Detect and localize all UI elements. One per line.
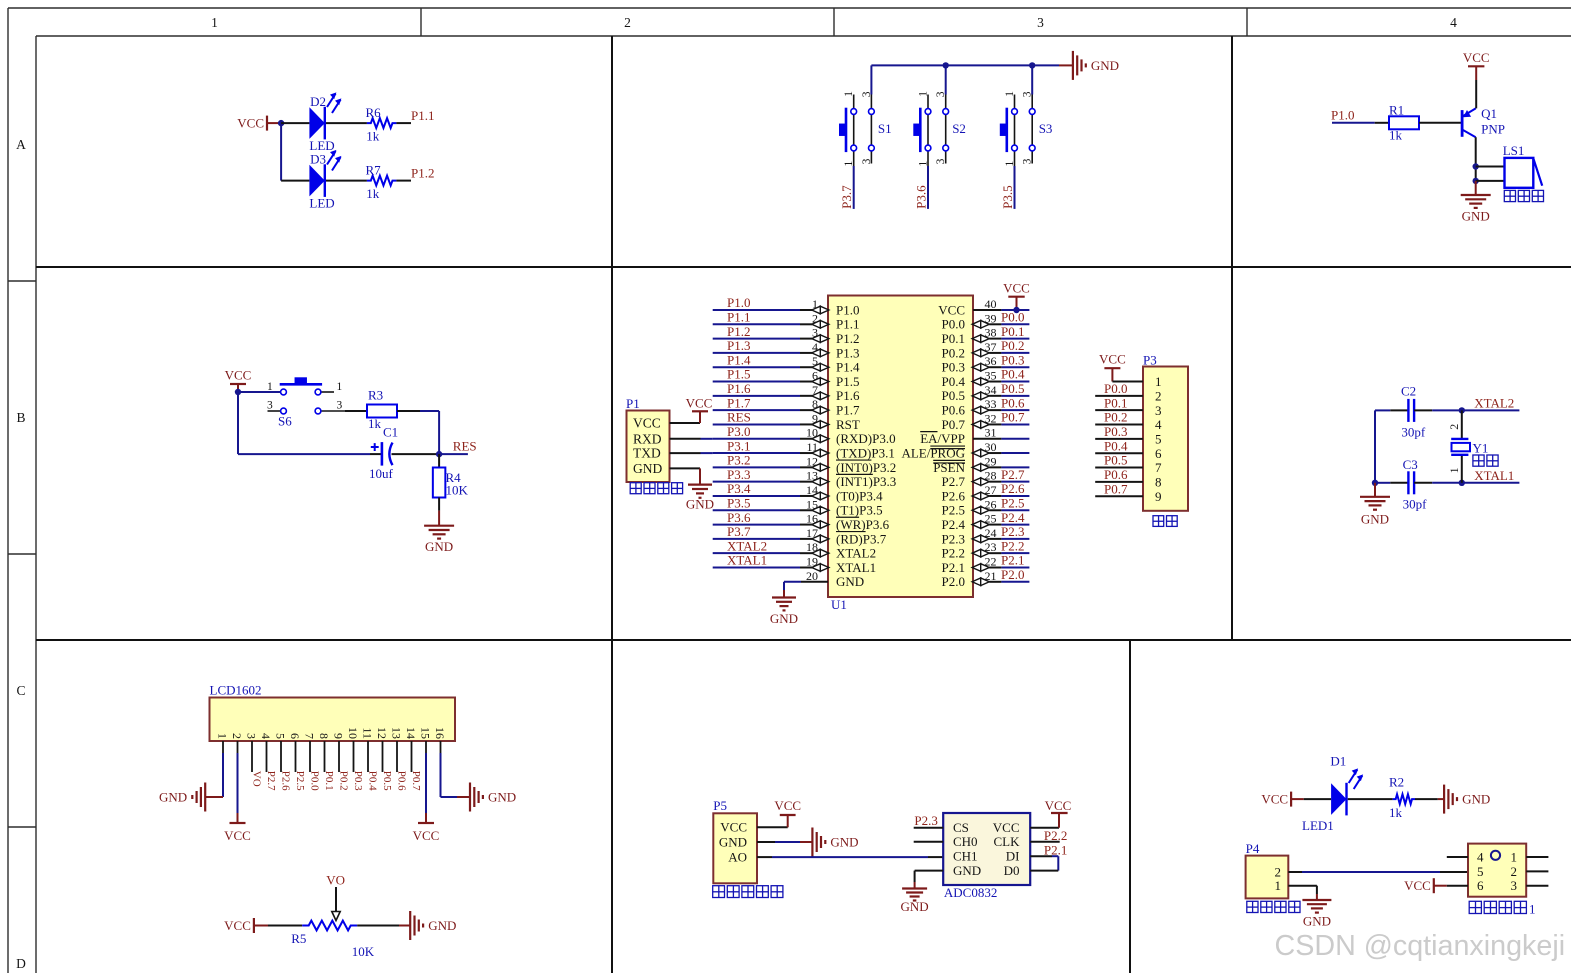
svg-text:1: 1 (1155, 374, 1162, 389)
svg-text:VCC: VCC (993, 820, 1020, 835)
svg-text:21: 21 (985, 569, 997, 583)
svg-text:S6: S6 (278, 414, 292, 429)
svg-text:27: 27 (985, 483, 997, 497)
svg-text:GND: GND (686, 497, 714, 512)
svg-text:P0.3: P0.3 (352, 771, 364, 791)
svg-text:P2.2: P2.2 (1044, 828, 1067, 843)
svg-text:8: 8 (812, 397, 818, 411)
svg-text:TXD: TXD (633, 446, 661, 461)
svg-text:2: 2 (812, 311, 818, 325)
svg-text:8: 8 (1155, 474, 1162, 489)
svg-text:P0.1: P0.1 (1104, 395, 1127, 410)
svg-text:P0.5: P0.5 (1001, 381, 1024, 396)
svg-text:VCC: VCC (720, 820, 747, 835)
svg-text:P2.1: P2.1 (1044, 843, 1067, 858)
svg-text:P2.2: P2.2 (1001, 538, 1024, 553)
svg-text:P0.6: P0.6 (1001, 395, 1025, 410)
svg-text:P1.3: P1.3 (727, 338, 750, 353)
svg-text:P2.3: P2.3 (914, 813, 937, 828)
svg-text:P2.3: P2.3 (1001, 524, 1024, 539)
svg-text:28: 28 (985, 469, 997, 483)
svg-text:P3.1: P3.1 (727, 438, 750, 453)
svg-text:R3: R3 (368, 388, 383, 403)
svg-text:R7: R7 (366, 162, 382, 177)
svg-text:3: 3 (861, 91, 873, 97)
svg-text:GND: GND (1303, 914, 1331, 929)
svg-text:CH1: CH1 (953, 849, 978, 864)
svg-text:P1.3: P1.3 (836, 345, 859, 360)
svg-text:39: 39 (985, 311, 997, 325)
svg-text:P3.7: P3.7 (727, 524, 751, 539)
svg-text:LED: LED (309, 196, 334, 211)
svg-text:XTAL1: XTAL1 (1474, 468, 1514, 483)
svg-text:4: 4 (1450, 15, 1457, 30)
svg-text:3: 3 (1022, 91, 1034, 97)
svg-text:P3.0: P3.0 (727, 424, 750, 439)
svg-text:1: 1 (918, 91, 930, 97)
svg-text:25: 25 (985, 512, 997, 526)
svg-text:14: 14 (806, 483, 818, 497)
svg-text:1: 1 (843, 161, 855, 167)
svg-text:P0.2: P0.2 (1104, 410, 1127, 425)
svg-text:1k: 1k (1389, 128, 1403, 143)
svg-text:15: 15 (806, 497, 818, 511)
svg-text:31: 31 (985, 426, 997, 440)
svg-text:P0.4: P0.4 (367, 771, 379, 791)
svg-text:P3.2: P3.2 (727, 453, 750, 468)
svg-text:4: 4 (1477, 849, 1484, 864)
svg-text:P3.5: P3.5 (1000, 185, 1015, 208)
svg-text:Y1: Y1 (1473, 440, 1489, 455)
svg-text:P2.3: P2.3 (942, 531, 965, 546)
svg-text:5: 5 (1477, 864, 1484, 879)
svg-text:(T1)P3.5: (T1)P3.5 (836, 503, 883, 518)
svg-text:30pf: 30pf (1401, 425, 1426, 440)
svg-text:GND: GND (953, 863, 981, 878)
svg-text:P0.5: P0.5 (1104, 453, 1127, 468)
svg-text:P1.0: P1.0 (1331, 108, 1354, 123)
svg-text:3: 3 (337, 400, 343, 412)
svg-text:CS: CS (953, 820, 969, 835)
svg-text:4: 4 (259, 733, 273, 739)
svg-text:P0.4: P0.4 (1001, 367, 1025, 382)
svg-text:P1.0: P1.0 (836, 302, 859, 317)
svg-text:(RD)P3.7: (RD)P3.7 (836, 531, 887, 546)
svg-text:1: 1 (1447, 467, 1461, 473)
svg-text:R2: R2 (1389, 775, 1404, 790)
svg-text:GND: GND (1462, 792, 1490, 807)
svg-text:P3.4: P3.4 (727, 481, 751, 496)
svg-text:P1.7: P1.7 (727, 395, 751, 410)
svg-text:40: 40 (985, 297, 997, 311)
svg-text:(INT0)P3.2: (INT0)P3.2 (836, 460, 896, 475)
svg-text:16: 16 (433, 727, 447, 739)
svg-text:VCC: VCC (1463, 50, 1490, 65)
svg-text:VCC: VCC (224, 918, 251, 933)
svg-text:1: 1 (1004, 91, 1016, 97)
svg-text:P0.4: P0.4 (1104, 438, 1128, 453)
svg-text:LCD1602: LCD1602 (210, 683, 262, 698)
svg-text:2: 2 (1511, 864, 1518, 879)
svg-text:VCC: VCC (237, 116, 264, 131)
svg-text:GND: GND (488, 790, 516, 805)
svg-text:35: 35 (985, 369, 997, 383)
svg-text:RXD: RXD (633, 431, 662, 446)
svg-text:VCC: VCC (1404, 878, 1431, 893)
svg-text:11: 11 (806, 440, 818, 454)
svg-text:37: 37 (985, 340, 997, 354)
svg-text:GND: GND (1091, 58, 1119, 73)
svg-text:5: 5 (1155, 431, 1162, 446)
svg-text:32: 32 (985, 411, 997, 425)
svg-text:ALE/PROG: ALE/PROG (901, 445, 965, 460)
svg-text:GND: GND (425, 539, 453, 554)
svg-text:10: 10 (346, 727, 360, 739)
svg-text:15: 15 (419, 727, 433, 739)
svg-text:1: 1 (918, 161, 930, 167)
svg-text:VCC: VCC (224, 828, 251, 843)
svg-text:P3: P3 (1143, 352, 1157, 367)
svg-text:P1.4: P1.4 (836, 360, 860, 375)
svg-text:38: 38 (985, 326, 997, 340)
svg-text:VCC: VCC (633, 416, 661, 431)
svg-text:P3.7: P3.7 (839, 185, 854, 209)
svg-text:3: 3 (861, 158, 873, 164)
svg-text:2: 2 (1155, 388, 1162, 403)
svg-text:7: 7 (1155, 460, 1162, 475)
svg-text:P0.7: P0.7 (1104, 481, 1128, 496)
svg-text:VCC: VCC (1045, 798, 1072, 813)
svg-text:P0.2: P0.2 (1001, 338, 1024, 353)
svg-text:36: 36 (985, 354, 997, 368)
svg-text:VCC: VCC (225, 368, 252, 383)
svg-text:29: 29 (985, 454, 997, 468)
svg-text:GND: GND (1462, 209, 1490, 224)
svg-text:GND: GND (830, 835, 858, 850)
svg-text:P1.5: P1.5 (727, 367, 750, 382)
svg-text:P1.4: P1.4 (727, 352, 751, 367)
svg-text:7: 7 (303, 733, 317, 739)
svg-text:3: 3 (1022, 158, 1034, 164)
svg-text:(INT1)P3.3: (INT1)P3.3 (836, 474, 896, 489)
svg-text:C: C (16, 683, 25, 698)
svg-text:P0.3: P0.3 (1104, 424, 1127, 439)
svg-text:P3.6: P3.6 (914, 185, 929, 209)
svg-text:P0.5: P0.5 (942, 388, 965, 403)
svg-text:P0.1: P0.1 (323, 771, 335, 791)
svg-text:13: 13 (806, 469, 818, 483)
svg-text:9: 9 (1155, 489, 1162, 504)
svg-text:23: 23 (985, 540, 997, 554)
svg-text:VO: VO (326, 873, 345, 888)
svg-text:XTAL2: XTAL2 (836, 546, 876, 561)
svg-text:S3: S3 (1039, 121, 1053, 136)
svg-text:RST: RST (836, 417, 860, 432)
svg-text:P1.2: P1.2 (411, 166, 434, 181)
svg-text:D1: D1 (1330, 754, 1346, 769)
svg-text:13: 13 (390, 727, 404, 739)
svg-text:P0.1: P0.1 (1001, 324, 1024, 339)
svg-text:P2.0: P2.0 (942, 574, 965, 589)
svg-text:P0.2: P0.2 (338, 771, 350, 791)
svg-text:PSEN: PSEN (933, 460, 965, 475)
svg-text:24: 24 (985, 526, 997, 540)
svg-text:4: 4 (1155, 417, 1162, 432)
svg-text:VCC: VCC (1003, 281, 1030, 296)
svg-text:30: 30 (985, 440, 997, 454)
svg-text:P1.1: P1.1 (727, 310, 750, 325)
svg-text:3: 3 (1511, 878, 1518, 893)
svg-text:P0.0: P0.0 (942, 317, 965, 332)
svg-text:Q1: Q1 (1481, 106, 1497, 121)
svg-text:10: 10 (806, 426, 818, 440)
svg-text:D2: D2 (310, 94, 326, 109)
svg-text:VCC: VCC (938, 302, 965, 317)
svg-text:20: 20 (806, 569, 818, 583)
svg-text:P0.6: P0.6 (942, 403, 966, 418)
svg-text:1: 1 (216, 733, 230, 739)
svg-text:1k: 1k (1389, 805, 1403, 820)
svg-text:GND: GND (633, 461, 662, 476)
svg-text:PNP: PNP (1481, 122, 1505, 137)
svg-text:GND: GND (770, 611, 798, 626)
svg-text:1: 1 (267, 381, 273, 393)
svg-text:P0.6: P0.6 (396, 771, 408, 791)
svg-text:P1.6: P1.6 (727, 381, 751, 396)
svg-text:P3.3: P3.3 (727, 467, 750, 482)
svg-text:2: 2 (230, 733, 244, 739)
svg-text:3: 3 (1155, 403, 1162, 418)
svg-text:LED1: LED1 (1302, 818, 1334, 833)
svg-text:1: 1 (337, 381, 343, 393)
svg-text:LS1: LS1 (1503, 143, 1525, 158)
svg-text:P0.2: P0.2 (942, 345, 965, 360)
svg-text:B: B (16, 410, 25, 425)
svg-text:5: 5 (812, 354, 818, 368)
svg-text:P0.0: P0.0 (309, 771, 321, 791)
svg-text:C3: C3 (1403, 457, 1418, 472)
svg-text:19: 19 (806, 554, 818, 568)
svg-text:P2.6: P2.6 (1001, 481, 1025, 496)
svg-text:EA/VPP: EA/VPP (920, 431, 965, 446)
svg-text:S2: S2 (952, 121, 966, 136)
svg-text:6: 6 (1477, 878, 1484, 893)
svg-text:(RXD)P3.0: (RXD)P3.0 (836, 431, 896, 446)
svg-text:14: 14 (404, 727, 418, 739)
svg-text:D3: D3 (310, 152, 326, 167)
svg-text:12: 12 (806, 454, 818, 468)
svg-text:P1.1: P1.1 (411, 108, 434, 123)
svg-text:3: 3 (935, 91, 947, 97)
svg-text:1k: 1k (368, 416, 382, 431)
svg-text:P2.6: P2.6 (942, 488, 966, 503)
svg-text:1: 1 (1511, 849, 1518, 864)
svg-text:9: 9 (332, 733, 346, 739)
svg-text:S1: S1 (878, 121, 892, 136)
svg-text:XTAL1: XTAL1 (727, 553, 767, 568)
svg-text:CLK: CLK (994, 834, 1021, 849)
svg-text:12: 12 (375, 727, 389, 739)
svg-text:10K: 10K (446, 483, 469, 498)
svg-text:C2: C2 (1401, 384, 1416, 399)
svg-text:16: 16 (806, 512, 818, 526)
svg-text:10uf: 10uf (369, 466, 394, 481)
svg-text:1: 1 (843, 91, 855, 97)
svg-text:33: 33 (985, 397, 997, 411)
svg-text:1: 1 (812, 297, 818, 311)
svg-text:10K: 10K (352, 944, 375, 959)
svg-text:P0.3: P0.3 (1001, 352, 1024, 367)
svg-text:P2.6: P2.6 (280, 771, 292, 791)
svg-text:22: 22 (985, 554, 997, 568)
svg-text:2: 2 (624, 15, 631, 30)
svg-text:VCC: VCC (686, 396, 713, 411)
svg-text:D: D (16, 956, 26, 971)
svg-text:P2.4: P2.4 (942, 517, 966, 532)
svg-text:(T0)P3.4: (T0)P3.4 (836, 488, 883, 503)
svg-text:(WR)P3.6: (WR)P3.6 (836, 517, 890, 532)
svg-text:1: 1 (1275, 878, 1282, 893)
svg-text:2: 2 (1447, 424, 1461, 430)
svg-text:1: 1 (1004, 161, 1016, 167)
svg-text:P2.5: P2.5 (294, 771, 306, 791)
svg-text:P0.7: P0.7 (1001, 410, 1025, 425)
svg-text:P2.7: P2.7 (942, 474, 966, 489)
svg-text:1: 1 (1529, 902, 1536, 917)
svg-text:P2.2: P2.2 (942, 546, 965, 561)
svg-text:P0.0: P0.0 (1001, 310, 1024, 325)
svg-text:GND: GND (428, 918, 456, 933)
svg-text:5: 5 (274, 733, 288, 739)
svg-text:P2.7: P2.7 (1001, 467, 1025, 482)
svg-text:3: 3 (267, 400, 273, 412)
svg-text:P2.0: P2.0 (1001, 567, 1024, 582)
svg-text:3: 3 (245, 733, 259, 739)
svg-text:VCC: VCC (1261, 792, 1288, 807)
svg-text:VCC: VCC (1099, 352, 1126, 367)
svg-text:P0.7: P0.7 (942, 417, 966, 432)
svg-text:P3.5: P3.5 (727, 495, 750, 510)
svg-text:34: 34 (985, 383, 997, 397)
svg-text:1k: 1k (366, 186, 380, 201)
svg-text:P1.0: P1.0 (727, 295, 750, 310)
svg-text:P1.1: P1.1 (836, 317, 859, 332)
svg-text:P2.4: P2.4 (1001, 510, 1025, 525)
svg-text:RES: RES (453, 439, 477, 454)
svg-text:ADC0832: ADC0832 (944, 885, 997, 900)
svg-text:GND: GND (901, 899, 929, 914)
svg-text:30pf: 30pf (1403, 497, 1428, 512)
svg-text:P1.2: P1.2 (727, 324, 750, 339)
svg-text:P4: P4 (1246, 841, 1260, 856)
svg-text:R6: R6 (366, 105, 382, 120)
svg-text:8: 8 (317, 733, 331, 739)
svg-text:DI: DI (1006, 849, 1020, 864)
svg-text:GND: GND (1361, 511, 1389, 526)
svg-text:VO: VO (251, 771, 263, 787)
svg-text:P2.5: P2.5 (942, 503, 965, 518)
svg-text:P1.5: P1.5 (836, 374, 859, 389)
svg-text:GND: GND (719, 834, 747, 849)
svg-text:P1.6: P1.6 (836, 388, 860, 403)
svg-text:GND: GND (159, 790, 187, 805)
svg-text:1k: 1k (366, 129, 380, 144)
svg-text:P0.0: P0.0 (1104, 381, 1127, 396)
svg-text:C1: C1 (383, 425, 398, 440)
svg-text:U1: U1 (831, 597, 847, 612)
svg-text:XTAL2: XTAL2 (1474, 396, 1514, 411)
svg-text:6: 6 (1155, 446, 1162, 461)
svg-text:AO: AO (728, 850, 747, 865)
svg-text:XTAL2: XTAL2 (727, 538, 767, 553)
svg-text:P0.1: P0.1 (942, 331, 965, 346)
svg-text:P0.6: P0.6 (1104, 467, 1128, 482)
svg-text:3: 3 (812, 326, 818, 340)
svg-text:P1.7: P1.7 (836, 403, 860, 418)
svg-text:P2.1: P2.1 (1001, 553, 1024, 568)
svg-text:VCC: VCC (413, 828, 440, 843)
svg-text:6: 6 (288, 733, 302, 739)
svg-text:P2.5: P2.5 (1001, 495, 1024, 510)
svg-text:7: 7 (812, 383, 818, 397)
svg-text:4: 4 (812, 340, 818, 354)
svg-text:XTAL1: XTAL1 (836, 560, 876, 575)
svg-text:26: 26 (985, 497, 997, 511)
svg-text:VCC: VCC (774, 798, 801, 813)
svg-text:D0: D0 (1004, 863, 1020, 878)
svg-text:11: 11 (361, 727, 375, 739)
svg-text:P5: P5 (713, 798, 727, 813)
svg-text:RES: RES (727, 410, 751, 425)
svg-text:P1.2: P1.2 (836, 331, 859, 346)
svg-text:A: A (16, 137, 26, 152)
svg-text:3: 3 (1037, 15, 1044, 30)
svg-text:P2.1: P2.1 (942, 560, 965, 575)
svg-text:6: 6 (812, 369, 818, 383)
svg-text:CH0: CH0 (953, 834, 978, 849)
svg-text:P0.3: P0.3 (942, 360, 965, 375)
svg-text:R1: R1 (1389, 103, 1404, 118)
svg-text:P0.7: P0.7 (410, 771, 422, 791)
svg-text:P0.4: P0.4 (942, 374, 966, 389)
svg-text:P1: P1 (626, 396, 640, 411)
svg-text:1: 1 (211, 15, 218, 30)
svg-text:18: 18 (806, 540, 818, 554)
svg-text:CSDN @cqtianxingkeji: CSDN @cqtianxingkeji (1275, 930, 1566, 962)
svg-text:P3.6: P3.6 (727, 510, 751, 525)
svg-text:P0.5: P0.5 (381, 771, 393, 791)
svg-text:9: 9 (812, 411, 818, 425)
svg-text:GND: GND (836, 574, 864, 589)
svg-text:17: 17 (806, 526, 818, 540)
svg-text:3: 3 (935, 158, 947, 164)
svg-text:(TXD)P3.1: (TXD)P3.1 (836, 445, 895, 460)
svg-text:P2.7: P2.7 (265, 771, 277, 791)
svg-text:R5: R5 (291, 931, 306, 946)
